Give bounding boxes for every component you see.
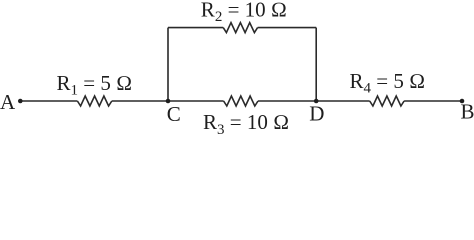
svg-text:R1 = 5 Ω: R1 = 5 Ω	[57, 71, 133, 98]
svg-text:R4 = 5 Ω: R4 = 5 Ω	[350, 69, 426, 96]
svg-text:D: D	[309, 101, 324, 125]
svg-text:C: C	[167, 102, 181, 126]
svg-text:R3 = 10 Ω: R3 = 10 Ω	[203, 110, 289, 136]
svg-text:B: B	[461, 99, 474, 123]
svg-text:A: A	[0, 90, 16, 114]
svg-text:R2 = 10 Ω: R2 = 10 Ω	[201, 0, 287, 25]
